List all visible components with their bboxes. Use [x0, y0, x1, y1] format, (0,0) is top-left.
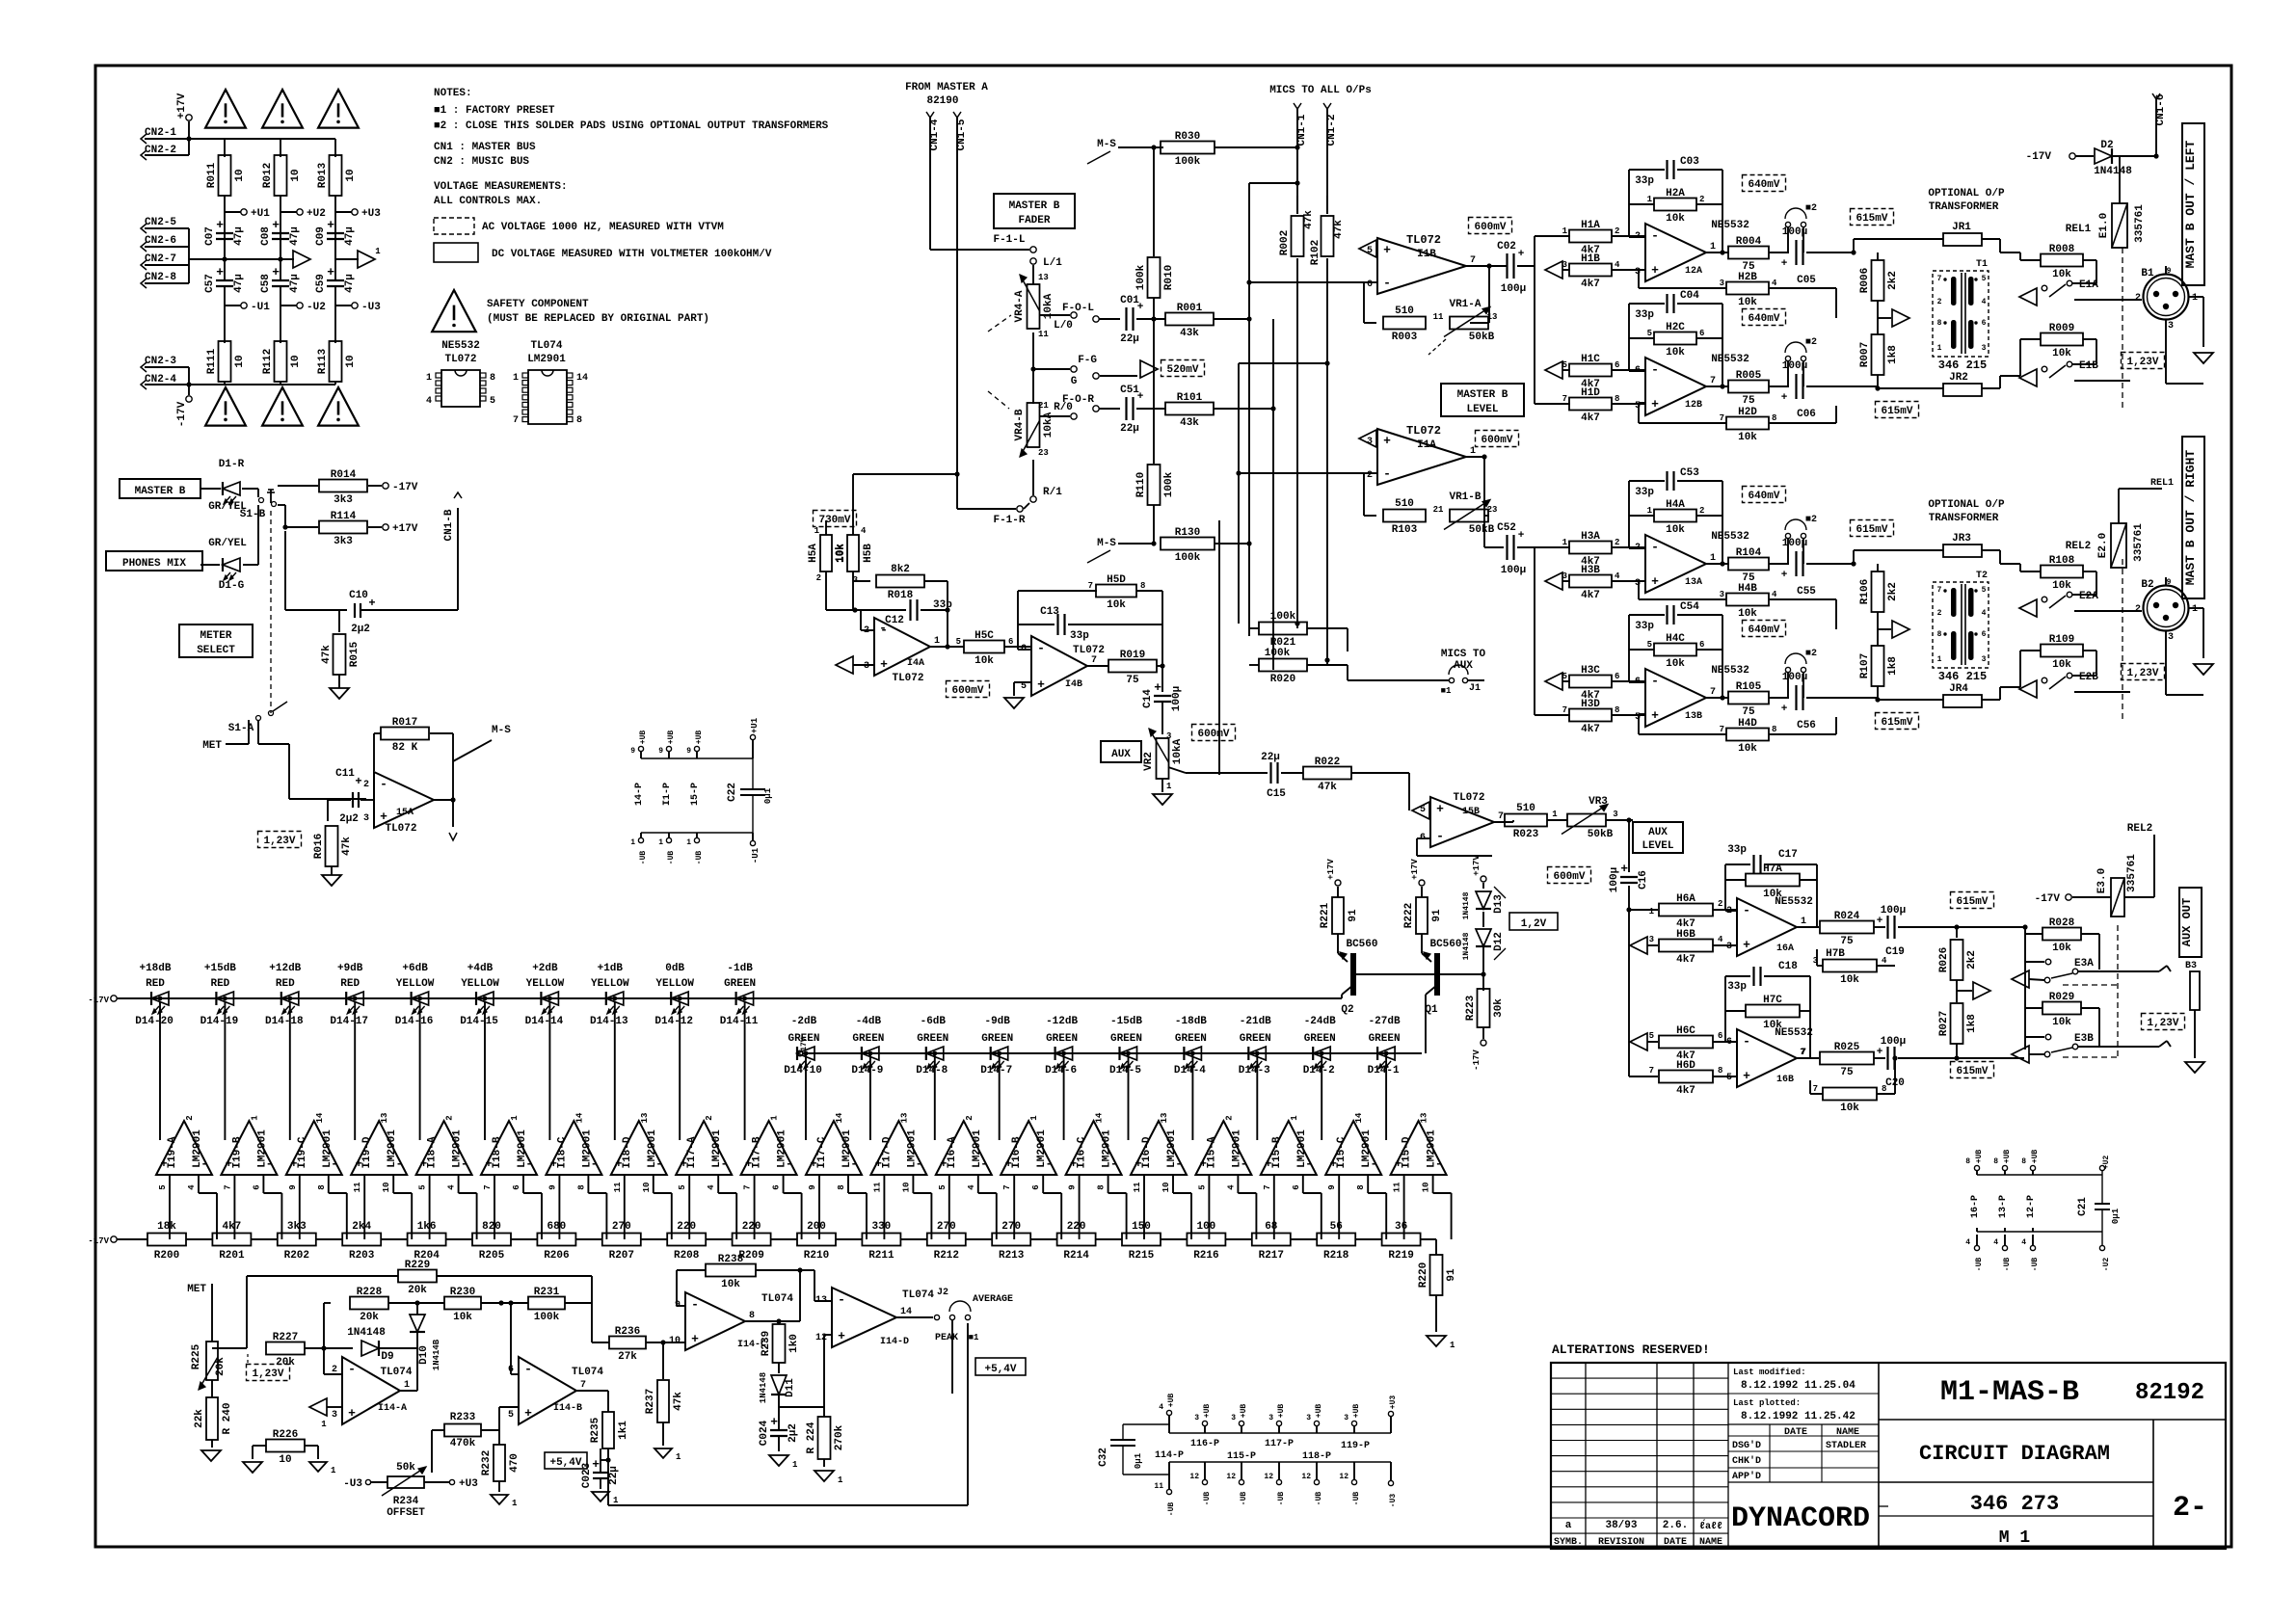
svg-text:I17-B: I17-B — [752, 1136, 763, 1168]
wires I19-C — [289, 1001, 291, 1140]
svg-text:R221: R221 — [1320, 902, 1331, 928]
svg-text:10: 10 — [1422, 1183, 1431, 1193]
svg-text:C57: C57 — [204, 274, 216, 293]
svg-text:8: 8 — [1718, 1066, 1722, 1076]
svg-text:I19-A: I19-A — [167, 1136, 178, 1168]
svg-text:7: 7 — [513, 415, 519, 426]
svg-text:+: + — [355, 775, 361, 788]
svg-text:DSG'D: DSG'D — [1732, 1440, 1761, 1451]
svg-text:C55: C55 — [1797, 586, 1816, 598]
solder pads *2 and cap C55 100u — [1769, 563, 1789, 565]
wire resistor bottom to +U terminal — [280, 196, 281, 259]
arrow mid rail 2 — [335, 258, 359, 260]
comparator I15-A LM2901 — [1195, 1121, 1251, 1175]
svg-text:14: 14 — [835, 1112, 844, 1123]
svg-text:10k: 10k — [2052, 348, 2071, 359]
terminal R/1 F-1-R — [1032, 460, 1034, 495]
resistor R203 2k4 — [342, 1234, 381, 1246]
resistor R012 10 — [275, 155, 287, 196]
legend dashed box AC voltage — [434, 218, 474, 234]
wires I17-D — [869, 1053, 871, 1140]
svg-text:+U3: +U3 — [1389, 1395, 1398, 1410]
svg-text:D14-11: D14-11 — [720, 1016, 759, 1027]
svg-text:J2: J2 — [937, 1288, 948, 1298]
svg-text:R232: R232 — [481, 1450, 493, 1475]
svg-text:RED: RED — [340, 978, 360, 990]
svg-text:4: 4 — [1772, 279, 1777, 288]
svg-text:4: 4 — [2021, 1238, 2026, 1247]
svg-text:+1dB: +1dB — [598, 963, 624, 974]
wire cap to -U terminal — [224, 286, 226, 343]
svg-text:10k: 10k — [2052, 580, 2071, 592]
svg-text:10k: 10k — [835, 544, 846, 563]
svg-text:I15-C: I15-C — [1336, 1136, 1348, 1168]
svg-text:8: 8 — [1937, 630, 1942, 639]
capacitor C04 33p + H2C 10k — [1629, 370, 1645, 372]
svg-text:REL2: REL2 — [2127, 823, 2152, 835]
svg-text:3: 3 — [2168, 632, 2174, 643]
svg-text:7: 7 — [1800, 1048, 1804, 1057]
resistor H1D 4k7 — [1535, 403, 1570, 405]
box METER SELECT — [179, 624, 253, 657]
svg-text:8: 8 — [490, 373, 495, 384]
svg-text:H7A: H7A — [1763, 864, 1782, 875]
svg-text:1: 1 — [426, 373, 432, 384]
svg-text:LM2901: LM2901 — [527, 354, 566, 365]
svg-text:+UB: +UB — [2031, 1150, 2040, 1164]
svg-text:R016: R016 — [313, 834, 325, 859]
svg-text:150: 150 — [1132, 1221, 1151, 1233]
svg-text:■2: ■2 — [1805, 337, 1817, 348]
svg-text:C32: C32 — [1098, 1448, 1109, 1467]
svg-text:R103: R103 — [1392, 524, 1418, 536]
svg-text:R214: R214 — [1063, 1250, 1089, 1262]
svg-text:R130: R130 — [1175, 527, 1200, 539]
dashed 600mV 15B — [1548, 867, 1591, 884]
svg-text:R215: R215 — [1129, 1250, 1155, 1262]
svg-text:R102: R102 — [1310, 240, 1322, 265]
svg-text:115-P: 115-P — [1227, 1451, 1256, 1462]
svg-text:75: 75 — [1126, 675, 1139, 686]
resistor R215 150 — [1122, 1234, 1161, 1246]
svg-text:F-1-L: F-1-L — [993, 234, 1025, 246]
wire to C16 — [1628, 820, 1630, 872]
svg-text:+: + — [272, 265, 280, 279]
svg-text:100µ: 100µ — [1171, 686, 1183, 711]
svg-text:+: + — [1651, 574, 1659, 589]
svg-text:+: + — [524, 1406, 532, 1421]
resistor R233 470k — [444, 1424, 481, 1437]
svg-text:2k2: 2k2 — [1887, 271, 1899, 290]
svg-text:H2D: H2D — [1738, 407, 1757, 418]
svg-text:4: 4 — [1982, 298, 1987, 306]
svg-text:R017: R017 — [392, 717, 417, 729]
resistor R105 75 — [1706, 697, 1729, 699]
svg-text:75: 75 — [1840, 936, 1854, 947]
svg-text:C56: C56 — [1797, 720, 1816, 731]
dashed 640mV — [1743, 487, 1786, 503]
resistor R237 47k vertical — [662, 1342, 664, 1379]
svg-text:D9: D9 — [381, 1351, 393, 1363]
dashed 640mV — [1743, 175, 1786, 192]
svg-text:E1B: E1B — [2079, 360, 2098, 372]
svg-text:R029: R029 — [2049, 992, 2074, 1003]
svg-text:R106: R106 — [1859, 579, 1871, 604]
svg-text:2: 2 — [1615, 538, 1619, 547]
title block frame — [1551, 1363, 2226, 1549]
connector CN1-2 — [1323, 103, 1331, 109]
svg-text:D14-4: D14-4 — [1174, 1065, 1206, 1076]
svg-text:7: 7 — [1498, 811, 1504, 822]
wire CN1-1 lower — [1296, 258, 1298, 628]
svg-text:CIRCUIT DIAGRAM: CIRCUIT DIAGRAM — [1919, 1442, 2110, 1466]
svg-text:10k: 10k — [2052, 1017, 2071, 1028]
svg-text:I18-D: I18-D — [622, 1136, 633, 1168]
svg-text:H4D: H4D — [1738, 718, 1757, 730]
svg-text:5: 5 — [1649, 1031, 1654, 1041]
dashed 730mV — [814, 511, 857, 527]
capacitor C024 2u2 — [770, 1429, 788, 1431]
resistor R018 8k2 — [853, 580, 870, 582]
resistor R109 10k — [2020, 650, 2041, 651]
svg-text:3: 3 — [1367, 437, 1373, 447]
resistor R008 10k — [2000, 252, 2020, 253]
wires I15-D — [1385, 1053, 1387, 1140]
resistor R019 75 — [1087, 665, 1108, 667]
svg-text:100µ: 100µ — [1501, 283, 1526, 295]
M-S wiper from R017 — [453, 740, 492, 761]
svg-text:+: + — [1137, 302, 1144, 313]
svg-text:C07: C07 — [204, 226, 216, 246]
svg-text:2: 2 — [965, 1115, 974, 1120]
svg-text:220: 220 — [1067, 1221, 1086, 1233]
wire bus D — [1238, 363, 1240, 624]
svg-text:+: + — [770, 1415, 778, 1429]
svg-text:10: 10 — [382, 1183, 391, 1193]
svg-text:1: 1 — [404, 1380, 410, 1391]
box AUX OUT — [2179, 888, 2202, 957]
arrow mid rail 1 — [280, 258, 294, 260]
svg-text:LM2901: LM2901 — [1231, 1129, 1242, 1168]
switch S1-B — [257, 489, 259, 497]
resistor R236 27k — [591, 1303, 593, 1342]
svg-text:-: - — [1651, 540, 1659, 554]
svg-text:100k: 100k — [1163, 471, 1175, 497]
svg-text:18k: 18k — [157, 1221, 176, 1233]
svg-text:C52: C52 — [1497, 522, 1516, 534]
svg-text:4: 4 — [1615, 571, 1620, 581]
svg-text:114-P: 114-P — [1155, 1450, 1184, 1461]
svg-text:ALTERATIONS RESERVED!: ALTERATIONS RESERVED! — [1552, 1342, 1710, 1357]
svg-text:43k: 43k — [1180, 328, 1199, 339]
svg-text:Q2: Q2 — [1341, 1004, 1353, 1016]
svg-text:1,23V: 1,23V — [2126, 668, 2158, 679]
svg-text:■1: ■1 — [969, 1333, 979, 1342]
svg-text:R002: R002 — [1279, 230, 1291, 255]
svg-text:4: 4 — [1965, 1238, 1970, 1247]
jumper JR1 — [1853, 239, 1855, 252]
svg-text:1: 1 — [510, 1115, 520, 1121]
svg-text:+: + — [327, 265, 334, 279]
svg-text:M-S: M-S — [492, 725, 511, 736]
svg-text:-UB: -UB — [1277, 1492, 1286, 1506]
svg-text:G: G — [1071, 376, 1078, 387]
svg-text:+UB: +UB — [695, 731, 704, 745]
resistor R211 330 — [862, 1234, 900, 1246]
box AUX LEVEL — [1633, 822, 1683, 853]
wire resistor bottom to +U terminal — [334, 196, 336, 259]
svg-text:1: 1 — [1801, 917, 1806, 927]
svg-text:91: 91 — [1348, 909, 1359, 922]
svg-text:R212: R212 — [934, 1250, 959, 1262]
svg-text:I4B: I4B — [1065, 679, 1082, 690]
svg-text:5: 5 — [418, 1184, 428, 1189]
svg-text:+: + — [1877, 1047, 1883, 1058]
power pin 13-P — [2002, 1165, 2007, 1170]
svg-text:I16-D: I16-D — [1141, 1136, 1153, 1168]
capacitor C01 22u — [1125, 307, 1127, 331]
svg-text:12: 12 — [1189, 1473, 1199, 1481]
svg-text:D14-18: D14-18 — [265, 1016, 304, 1027]
svg-text:REVISION: REVISION — [1598, 1537, 1644, 1548]
svg-text:R210: R210 — [804, 1250, 829, 1262]
svg-text:R006: R006 — [1859, 268, 1871, 293]
box +5,4V — [545, 1452, 587, 1469]
svg-text:R025: R025 — [1834, 1042, 1860, 1053]
op-amp 12A NE5532 — [1645, 224, 1706, 281]
svg-text:50kB: 50kB — [1469, 524, 1495, 536]
svg-text:10k: 10k — [1840, 1103, 1859, 1114]
svg-text:10: 10 — [642, 1183, 652, 1193]
svg-text:119-P: 119-P — [1341, 1441, 1370, 1451]
svg-text:+U1: +U1 — [750, 717, 760, 733]
wire CN1-B — [284, 531, 286, 610]
svg-text:5: 5 — [158, 1184, 168, 1189]
svg-text:VR1-A: VR1-A — [1449, 299, 1481, 310]
svg-text:13A: 13A — [1685, 577, 1702, 588]
op-amp I6B NE5532 — [1737, 1029, 1797, 1087]
svg-text:1N4148: 1N4148 — [2094, 166, 2132, 177]
svg-text:1: 1 — [1647, 195, 1653, 204]
svg-text:1: 1 — [1937, 344, 1942, 353]
comparator I17-A LM2901 — [676, 1121, 732, 1175]
svg-text:LM2901: LM2901 — [1166, 1129, 1178, 1168]
svg-text:-U3: -U3 — [1389, 1494, 1398, 1508]
svg-text:10k: 10k — [721, 1279, 740, 1290]
svg-text:22k: 22k — [194, 1409, 205, 1428]
svg-text:R026: R026 — [1938, 947, 1950, 972]
svg-text:+: + — [838, 1329, 845, 1343]
power pin +UB bottom group — [1351, 1421, 1356, 1425]
wire VR2 wiper to C15 — [1168, 767, 1186, 773]
svg-text:3: 3 — [1982, 655, 1987, 664]
svg-text:NE5532: NE5532 — [441, 340, 480, 352]
svg-text:E3.0: E3.0 — [2096, 868, 2108, 893]
svg-text:CN2-1: CN2-1 — [145, 127, 176, 139]
svg-text:-: - — [380, 777, 387, 791]
svg-text:8: 8 — [1772, 413, 1776, 423]
svg-text:NE5532: NE5532 — [1711, 354, 1749, 365]
svg-text:-: - — [1651, 228, 1659, 243]
svg-text:C04: C04 — [1680, 290, 1699, 302]
svg-text:335761: 335761 — [2126, 854, 2138, 892]
svg-text:82 K: 82 K — [392, 742, 418, 754]
svg-text:D14-14: D14-14 — [525, 1016, 564, 1027]
svg-text:1k8: 1k8 — [1966, 1014, 1978, 1033]
svg-text:C13: C13 — [1040, 606, 1059, 618]
svg-text:47k: 47k — [1303, 210, 1315, 229]
resistor R004 75 — [1706, 252, 1729, 253]
svg-text:LM2901: LM2901 — [972, 1129, 983, 1168]
svg-text:47k: 47k — [321, 645, 333, 664]
svg-text:615mV: 615mV — [1956, 1066, 1988, 1077]
svg-text:47k: 47k — [1333, 220, 1345, 239]
svg-text:4: 4 — [1772, 590, 1777, 599]
svg-text:-1dB: -1dB — [727, 963, 753, 974]
svg-text:D1-G: D1-G — [219, 580, 245, 592]
svg-text:D14-2: D14-2 — [1303, 1065, 1335, 1076]
svg-text:+: + — [592, 1457, 600, 1472]
svg-text:F-O-R: F-O-R — [1062, 394, 1094, 406]
svg-text:0µ1: 0µ1 — [2111, 1208, 2121, 1224]
dashed 640mV lower — [1743, 309, 1786, 326]
switch E1B — [2042, 366, 2047, 372]
svg-text:14: 14 — [900, 1307, 912, 1317]
svg-text:5: 5 — [938, 1184, 948, 1189]
svg-text:D10: D10 — [418, 1345, 430, 1365]
svg-text:33p: 33p — [1727, 844, 1747, 856]
svg-text:R005: R005 — [1736, 370, 1762, 382]
svg-text:H2C: H2C — [1666, 322, 1685, 333]
svg-text:3: 3 — [332, 1410, 337, 1421]
svg-text:47µ: 47µ — [289, 274, 301, 293]
power pin 15-P — [694, 746, 699, 751]
svg-text:PHONES MIX: PHONES MIX — [122, 558, 186, 570]
relay E3.0 — [2111, 878, 2124, 917]
terminal -U1 — [225, 305, 241, 306]
capacitor C15 22u — [1269, 762, 1271, 784]
resistor R240 22k vertical — [206, 1397, 218, 1440]
svg-text:10kA: 10kA — [1172, 738, 1184, 764]
svg-text:H6B: H6B — [1676, 929, 1695, 941]
box MAST B OUT / LEFT — [2182, 123, 2204, 285]
svg-text:7: 7 — [1649, 1066, 1654, 1076]
svg-text:LM2901: LM2901 — [1361, 1129, 1373, 1168]
svg-text:H1C: H1C — [1581, 354, 1600, 365]
resistor R029 10k — [2042, 1002, 2081, 1015]
resistor R024 75 — [1797, 926, 1819, 928]
warning triangle top 1 — [205, 90, 246, 128]
svg-text:117-P: 117-P — [1265, 1439, 1294, 1449]
svg-text:LM2901: LM2901 — [841, 1129, 853, 1168]
svg-text:R110: R110 — [1135, 472, 1147, 497]
svg-text:D14-5: D14-5 — [1109, 1065, 1141, 1076]
svg-text:5: 5 — [956, 637, 961, 647]
dashed 600mV I1A — [1476, 431, 1519, 447]
svg-text:13: 13 — [899, 1113, 909, 1124]
svg-text:MAST B OUT / RIGHT: MAST B OUT / RIGHT — [2183, 450, 2198, 586]
pot R225 20k — [206, 1342, 218, 1380]
svg-text:10k: 10k — [2052, 269, 2071, 280]
svg-text:M-S: M-S — [1097, 538, 1116, 549]
resistor R013 10 — [330, 155, 342, 196]
svg-text:615mV: 615mV — [1855, 524, 1887, 536]
dashed 1,23V meter — [247, 1365, 290, 1381]
svg-text:75: 75 — [1742, 395, 1755, 407]
dashed 600mV C14 — [1192, 725, 1236, 741]
wire input node — [1534, 547, 1535, 715]
resistor R206 680 — [537, 1234, 575, 1246]
wire CN1-1 down — [1296, 109, 1298, 214]
svg-text:C53: C53 — [1680, 467, 1699, 479]
svg-text:JR4: JR4 — [1949, 683, 1968, 695]
svg-text:100µ: 100µ — [1609, 867, 1620, 892]
svg-text:2: 2 — [1367, 470, 1373, 481]
svg-text:H4B: H4B — [1738, 583, 1757, 595]
svg-text:1: 1 — [1166, 782, 1172, 791]
svg-text:MASTER B: MASTER B — [1009, 200, 1060, 212]
svg-text:+U1: +U1 — [251, 208, 270, 220]
svg-text:33p: 33p — [1727, 981, 1747, 993]
wires I19-D — [354, 1001, 356, 1140]
svg-text:YELLOW: YELLOW — [396, 978, 435, 990]
svg-text:47µ: 47µ — [233, 274, 245, 293]
svg-text:10k: 10k — [1738, 297, 1757, 308]
svg-text:C11: C11 — [335, 768, 355, 780]
ground VR2 — [1161, 779, 1163, 792]
svg-text:1N4148: 1N4148 — [1462, 932, 1471, 960]
svg-text:CN1 : MASTER BUS: CN1 : MASTER BUS — [434, 142, 536, 153]
svg-text:H5C: H5C — [974, 630, 994, 642]
svg-text:H5D: H5D — [1107, 574, 1126, 586]
arrow I14-A plus — [309, 1398, 327, 1416]
svg-text:GREEN: GREEN — [724, 978, 756, 990]
svg-text:600mV: 600mV — [1481, 435, 1512, 446]
svg-text:1: 1 — [658, 838, 663, 847]
svg-text:47k: 47k — [1318, 782, 1337, 793]
capacitor C20 100u — [1874, 1057, 1885, 1059]
power pin I1-P — [666, 746, 671, 751]
svg-text:R206: R206 — [544, 1250, 569, 1262]
svg-text:I15-A: I15-A — [1206, 1136, 1217, 1168]
svg-text:D11: D11 — [785, 1378, 796, 1397]
svg-text:21: 21 — [1433, 505, 1444, 515]
resistor R212 270 — [927, 1234, 966, 1246]
svg-text:2: 2 — [2135, 293, 2141, 304]
resistor R229 20k — [246, 1276, 248, 1348]
svg-text:7: 7 — [1002, 1184, 1012, 1189]
svg-text:R013: R013 — [317, 162, 329, 188]
svg-text:+: + — [1137, 391, 1144, 403]
svg-text:100µ: 100µ — [1782, 672, 1807, 683]
svg-text:22µ: 22µ — [1120, 423, 1139, 435]
op-amp 13B NE5532 — [1645, 669, 1706, 727]
svg-text:TL074: TL074 — [572, 1367, 603, 1378]
svg-text:-: - — [879, 621, 887, 635]
wire J2 average down — [951, 1320, 953, 1394]
svg-text:C023: C023 — [581, 1462, 593, 1488]
svg-text:FROM MASTER A: FROM MASTER A — [905, 82, 988, 93]
svg-text:10: 10 — [1161, 1183, 1171, 1193]
svg-text:VR4-A: VR4-A — [1014, 290, 1026, 322]
svg-text:C02: C02 — [1497, 241, 1516, 252]
svg-text:75: 75 — [1742, 706, 1755, 718]
svg-text:REL1: REL1 — [2150, 478, 2174, 489]
svg-text:7: 7 — [1088, 581, 1093, 591]
svg-text:STADLER: STADLER — [1826, 1441, 1866, 1451]
svg-text:-: - — [691, 1297, 699, 1312]
wire C02 from I1B — [1466, 265, 1504, 267]
